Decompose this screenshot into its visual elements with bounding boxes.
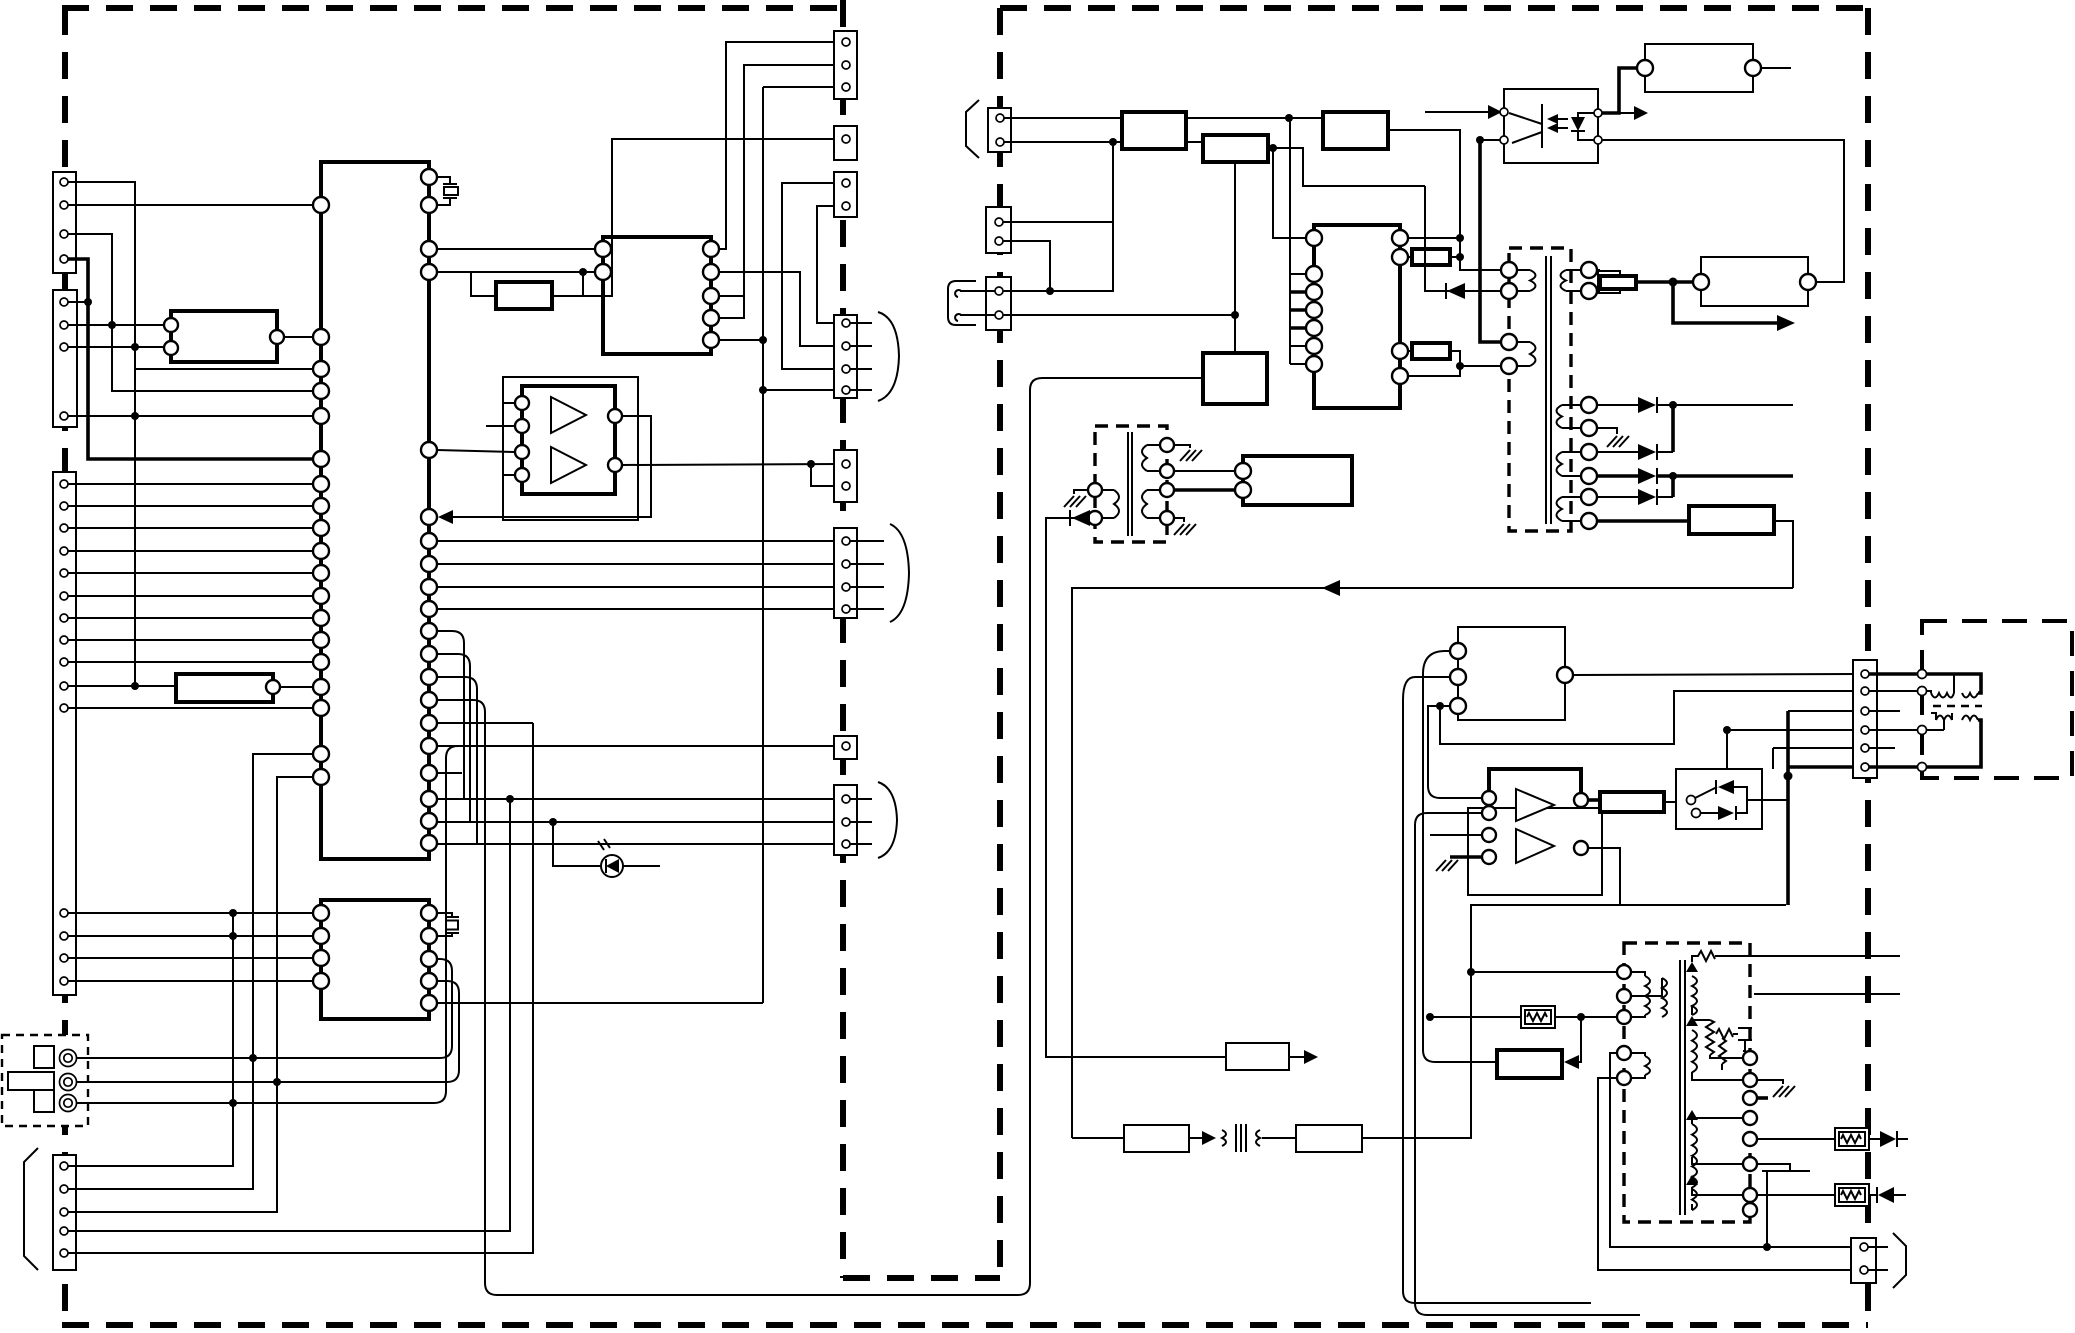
junction	[229, 909, 237, 917]
cable brace CN10	[890, 524, 909, 622]
wire R6 to FB line	[1774, 521, 1793, 588]
wire R1 to IC1	[280, 686, 313, 688]
U7 pins	[1637, 60, 1653, 76]
LED D1 symbol	[606, 859, 619, 873]
CN5 pins	[842, 38, 850, 46]
wire CN7-CN8 link2	[782, 183, 838, 369]
wire rail to CN5.3	[763, 86, 838, 88]
wire U4.5 rail	[719, 339, 763, 341]
junction	[131, 412, 139, 420]
rectifier join 1	[1671, 405, 1675, 452]
CN12 pins	[842, 795, 850, 803]
buffer shield box	[503, 377, 638, 520]
wire IC1 to CN12	[437, 798, 838, 800]
crystal X1 leads	[437, 177, 450, 205]
resistor R12 leads	[1408, 351, 1501, 366]
stub IC1 pin	[437, 772, 462, 774]
crystal X1	[443, 184, 457, 198]
wire CN3.12 to IC3	[68, 912, 313, 914]
IC2 pin	[164, 318, 178, 332]
CN2 pin 1	[60, 298, 68, 306]
wire to CN30 p3	[1788, 710, 1857, 712]
arrowhead FB	[1322, 580, 1340, 596]
braid wire 4 long return	[437, 378, 1203, 1295]
T4 primary winding 1	[1631, 972, 1650, 1017]
CN1 pin 1	[60, 178, 68, 186]
buffer amp A	[551, 397, 586, 433]
T4 pin1017 feed	[1430, 1016, 1617, 1018]
braid wire 1	[437, 631, 464, 799]
U5 input pins	[515, 396, 529, 482]
optocoupler U6	[1504, 89, 1598, 163]
arrow stub B+	[1673, 282, 1778, 323]
rectifier wire 1	[1597, 404, 1793, 406]
PWM controller U8	[1458, 627, 1565, 720]
resistor R7	[1600, 792, 1664, 812]
relay block RY1	[1203, 353, 1267, 404]
CN1 pin 3	[60, 230, 68, 238]
buffer amp B	[551, 447, 586, 483]
junction	[249, 1054, 257, 1062]
resistor R11	[1412, 249, 1450, 265]
wire R10 to B+	[1388, 130, 1501, 270]
stub pin 1098	[1757, 1096, 1768, 1100]
junction	[1456, 234, 1464, 242]
CN8 stubs	[850, 323, 872, 390]
rect block R10	[1323, 112, 1388, 149]
power board dashed border right	[1865, 8, 1871, 1325]
T2 core	[1128, 432, 1132, 536]
ground	[1180, 450, 1202, 461]
wire U4.2 to CN8	[719, 272, 838, 346]
H3 pins	[1693, 274, 1709, 290]
junction	[1723, 726, 1731, 734]
junction	[759, 336, 767, 344]
U10 input wire pin3	[1430, 834, 1482, 836]
feedback wire	[451, 416, 651, 517]
ground	[1064, 496, 1086, 507]
T4 primary winding 2	[1631, 978, 1667, 1017]
CN21 pins	[995, 218, 1003, 226]
T2 gnd right bottom	[1174, 518, 1184, 522]
wire IC1 to CN11	[437, 745, 838, 747]
CN7 pins	[842, 179, 850, 187]
fusible resistor FR3	[1521, 1006, 1555, 1028]
T1 core	[1546, 256, 1551, 524]
IC4 switching regulator	[1314, 225, 1400, 408]
AV square pad 1	[34, 1046, 54, 1068]
wire L1 out	[1268, 148, 1425, 186]
CN30 pins	[1861, 670, 1869, 771]
CN22 pins	[995, 287, 1003, 295]
fuse block F1	[1122, 112, 1186, 149]
AV jack panel dashed box	[2, 1035, 88, 1126]
R5 leads	[1597, 270, 1600, 291]
RCA jack 2	[60, 1074, 77, 1091]
junction	[1669, 401, 1677, 409]
wire IC1 to U4	[437, 248, 595, 250]
wire CN22.2	[1003, 314, 1235, 316]
power board dashed border top	[1000, 5, 1868, 11]
rail vertical net	[762, 87, 764, 1003]
junction	[1467, 968, 1475, 976]
ground	[1436, 860, 1458, 871]
wire rail to CN8.4	[763, 389, 838, 391]
output wire 994	[1754, 993, 1900, 995]
wire to T4 primary	[1471, 971, 1617, 973]
U6 LED	[1571, 117, 1585, 131]
resistor R11 leads	[1408, 256, 1460, 258]
diode D3	[1638, 397, 1656, 413]
wire CN1.4 5V rail	[68, 259, 313, 459]
U6 pins	[1500, 108, 1508, 116]
speaker terminals	[1918, 670, 1927, 679]
wire CN1.1 to IC1	[68, 182, 135, 687]
wire CN2.1	[68, 301, 88, 303]
U8 right pin	[1557, 667, 1573, 683]
junction	[579, 268, 587, 276]
diode D9	[1869, 1194, 1878, 1196]
junction	[131, 343, 139, 351]
AV square pad 2	[34, 1090, 54, 1112]
IC4 vcc stub	[1408, 237, 1460, 239]
U4 left pins	[595, 241, 611, 257]
wire term730	[1927, 729, 1944, 731]
digital board dashed border left	[62, 8, 68, 1325]
junction	[1426, 1013, 1434, 1021]
wire to IC4 vcc pin	[1273, 148, 1306, 238]
T1 primary winding B	[1517, 342, 1536, 366]
junction	[1784, 772, 1793, 781]
wire U6 collector up	[1602, 68, 1637, 113]
regulator block U9	[1243, 456, 1352, 505]
wire IC1 to CN12	[437, 843, 838, 845]
IC4 bus stubs thick	[1290, 292, 1306, 328]
wire IC1 pin	[135, 368, 313, 370]
junction	[1046, 287, 1054, 295]
wire CN2.3	[68, 346, 171, 348]
jumper CN9	[811, 464, 838, 486]
voice coil 1	[1927, 675, 1978, 698]
wire RCA1	[77, 959, 452, 1058]
standby block H4	[1226, 1043, 1289, 1070]
connector CN22	[986, 277, 1011, 330]
inter-board dashed line left	[840, 0, 846, 1278]
transformer T4 dashed box	[1624, 943, 1750, 1222]
rectifier wire 3 thick	[1597, 474, 1793, 478]
arrow stub	[1634, 106, 1648, 120]
junction	[1763, 1243, 1771, 1251]
wire CN2.4	[68, 415, 313, 417]
cable brace AC	[966, 100, 979, 158]
wire CN3 to filter R	[68, 685, 176, 687]
junction	[131, 682, 139, 690]
connector CN3	[53, 472, 76, 995]
junction	[1231, 311, 1239, 319]
wire CN6 to R2 node	[583, 139, 838, 296]
fusible resistor FR1	[1835, 1128, 1869, 1150]
CN30 to speaker wires	[1869, 674, 1917, 767]
junction	[1285, 114, 1293, 122]
junction	[1269, 144, 1277, 152]
connector CN30	[1853, 660, 1877, 778]
cable brace CN4	[24, 1148, 38, 1270]
connector CN4	[53, 1155, 76, 1270]
IC4 left pins	[1306, 230, 1322, 372]
junction	[1436, 702, 1444, 710]
wire IC1 to U5	[437, 450, 515, 452]
U10 amp B	[1516, 829, 1554, 863]
wire CN3.14 to IC3	[68, 957, 313, 959]
CN10 stubs	[850, 541, 884, 609]
trigger block H6	[1124, 1125, 1189, 1152]
R5 snubber	[1598, 271, 1620, 293]
bundle into H5	[1423, 651, 1497, 1062]
wire T2 to U9 thick	[1174, 488, 1243, 492]
wire RCA3	[77, 746, 458, 1103]
T2 gnd top-left	[1074, 490, 1088, 494]
voice coil drive wire	[1927, 674, 1981, 693]
connector CN12	[834, 785, 857, 855]
H4 out arrow	[1289, 1056, 1307, 1058]
CN2 pin 3	[60, 343, 68, 351]
junction	[1577, 1013, 1585, 1021]
resistor R2	[496, 282, 552, 309]
CN4 pin 5	[60, 1249, 68, 1257]
CN4 pin 3	[60, 1208, 68, 1216]
wire pin1053	[1610, 1053, 1857, 1247]
IC4 right pins	[1392, 230, 1408, 384]
T1 primary pins	[1501, 262, 1517, 278]
wire U4.1 to CN5	[719, 42, 838, 249]
IC4 ground bus	[1289, 118, 1291, 364]
CN6 pin	[842, 135, 850, 143]
junction	[1476, 136, 1484, 144]
T4 left pins	[1617, 965, 1631, 979]
T4 secondary windings	[1692, 976, 1697, 1015]
wire CN4.3	[68, 777, 313, 1212]
IC4 bus stubs	[1290, 274, 1306, 364]
amp block U10	[1489, 769, 1581, 887]
wire IC1 data to CN10	[437, 586, 838, 588]
cable brace CN31	[1893, 1233, 1906, 1288]
IC1 right pins	[421, 169, 437, 851]
wire to CN30 p2	[1440, 691, 1857, 744]
junction	[1456, 362, 1464, 370]
wire FB to H6	[1072, 1137, 1124, 1139]
LED D1	[601, 855, 623, 877]
wire IC2 out	[284, 336, 313, 338]
wire CN4.2	[68, 754, 313, 1189]
transformer T1 dashed box	[1509, 248, 1571, 531]
snubber resistor zigzag top	[1692, 951, 1717, 962]
diode D2	[1447, 283, 1465, 299]
arrowhead	[1488, 105, 1502, 119]
wire R7 to SW	[1664, 801, 1676, 803]
wire CN3.15 to IC3	[68, 980, 313, 982]
clamp diode D2 wire	[1425, 186, 1501, 291]
filter block L1	[1203, 135, 1268, 162]
switch box SW1	[1676, 769, 1762, 829]
feedback resistor R6 feed	[1597, 519, 1689, 523]
RCA jack 1	[60, 1050, 77, 1067]
bottom dashed border	[62, 1322, 1868, 1328]
LED rays	[598, 839, 610, 850]
wire U8 out to CN30	[1573, 674, 1857, 675]
CN31 stubs	[1868, 1247, 1888, 1270]
CN4 pin 4	[60, 1227, 68, 1235]
U5 output pins	[608, 409, 622, 423]
U5 input stubs	[486, 403, 515, 475]
CN2 pin 4	[60, 412, 68, 420]
wire IC3.5 net	[437, 1002, 763, 1004]
speaker dashed box	[1922, 621, 2072, 778]
junction	[273, 1078, 281, 1086]
wire U5 outB to CN9	[622, 464, 838, 465]
buffer U5	[522, 386, 615, 494]
relay rail vertical	[1786, 711, 1790, 905]
opto feed arrow wire	[1425, 111, 1490, 113]
T2 left pins	[1088, 483, 1102, 497]
wire CN4.1	[68, 1103, 233, 1166]
wire RCA2	[77, 981, 459, 1082]
inter-board dashed line right	[997, 8, 1003, 1278]
T4 core	[1680, 960, 1685, 1215]
resistor R12	[1412, 343, 1450, 359]
braid wire 2	[437, 654, 470, 822]
IC3 right pins	[421, 905, 437, 1011]
connector CN6	[834, 126, 857, 160]
CN11 pin	[842, 742, 850, 750]
wire CN21.1	[1003, 142, 1113, 222]
wire AC line 1	[1004, 117, 1323, 119]
U6 light arrows	[1552, 119, 1568, 128]
wire to CN30 p6 thick	[1788, 765, 1857, 769]
junction	[229, 932, 237, 940]
T4 pin stubs	[1692, 1005, 1743, 1210]
SW1 wiring	[1701, 787, 1788, 813]
wire CN7-CN8 link	[817, 206, 838, 323]
T2 gnd right top	[1174, 445, 1190, 448]
CN3 bus wires to IC1	[68, 484, 313, 708]
primary return thick	[1480, 140, 1501, 342]
coil core dashes	[1933, 705, 1982, 707]
CN20 pins	[996, 114, 1004, 122]
T1 primary winding A	[1517, 270, 1536, 291]
T1 secondary windings	[1557, 405, 1582, 428]
H6 out arrow	[1189, 1137, 1205, 1139]
junction	[549, 818, 557, 826]
wire to CN30 p5	[1773, 748, 1857, 769]
IC2 reset supervisor	[171, 311, 277, 362]
connector CN2	[53, 290, 77, 427]
U10 amp A	[1516, 789, 1554, 821]
T2 left winding	[1102, 490, 1119, 518]
diode D5	[1638, 468, 1656, 484]
CN10 pins	[842, 537, 850, 613]
U6 phototransistor	[1509, 104, 1542, 148]
T1 secondary pins	[1581, 262, 1597, 529]
wire L1 bottom to relay	[1234, 162, 1236, 353]
IC1 main microcontroller	[321, 162, 429, 859]
ground	[1174, 524, 1196, 535]
T4 right pins	[1743, 1051, 1757, 1217]
voice coil 2	[1931, 713, 1978, 730]
junction	[506, 795, 514, 803]
U10 left pins	[1482, 791, 1496, 805]
T2 right winding top	[1142, 445, 1160, 471]
crystal X2 leads	[437, 913, 452, 936]
voice coil 2 return thick	[1927, 720, 1981, 767]
junction	[759, 386, 767, 394]
wire CN21.2	[1003, 241, 1050, 291]
chassis gnd bar	[1762, 1170, 1810, 1172]
IC2 pin	[164, 341, 178, 355]
driver block H5	[1497, 1050, 1562, 1078]
output wire 956	[1717, 955, 1900, 957]
rectifier wire 2	[1597, 451, 1673, 453]
wire to FR1	[1757, 1138, 1835, 1140]
wire U7 out	[1761, 67, 1791, 69]
U6 LED leads	[1578, 113, 1594, 140]
connector CN31	[1851, 1238, 1876, 1283]
IC3 left pins	[313, 905, 329, 989]
connector CN5	[834, 31, 857, 99]
filter block R1	[176, 674, 273, 702]
SW1 contact	[1687, 796, 1696, 805]
wire IC1 data to CN10	[437, 540, 838, 542]
CN3 pins	[60, 480, 68, 985]
junction	[84, 298, 92, 306]
CN2 pin 2	[60, 321, 68, 329]
gnd T4	[1757, 1080, 1783, 1084]
RCA jack 3	[60, 1095, 77, 1112]
junction	[807, 460, 815, 468]
U10 right pins	[1574, 793, 1588, 807]
digital board dashed border top	[62, 5, 843, 11]
SW1 diode up	[1718, 780, 1734, 794]
CN4 pin 1	[60, 1162, 68, 1170]
CN31 pins	[1860, 1243, 1868, 1251]
AV wide pad	[8, 1072, 54, 1090]
arrow into H5	[1578, 1017, 1581, 1062]
diode D7	[1072, 510, 1090, 526]
wire IC1 to CN12	[437, 821, 838, 823]
wire H7 to T4	[1362, 905, 1786, 1138]
wire CN22.1	[1003, 222, 1113, 291]
diode D7 wire	[1046, 518, 1226, 1057]
U10 input wire pin2	[1415, 813, 1640, 1315]
wire CN22 to plug	[960, 291, 995, 315]
T1 aux winding	[1561, 270, 1582, 291]
junction	[1456, 253, 1464, 261]
CN9 pins	[842, 460, 850, 468]
U4 driver block	[603, 237, 711, 354]
T4 aux winding	[1631, 1053, 1650, 1078]
CN8 pins	[842, 319, 850, 394]
wire T3 to H7	[1262, 1137, 1296, 1139]
junction	[1669, 278, 1678, 287]
CN1 pin 2	[60, 201, 68, 209]
cable brace CN12	[878, 782, 897, 858]
U10 shield	[1468, 808, 1602, 895]
U8 left pins	[1450, 643, 1466, 659]
wire CN4.4	[68, 798, 510, 1231]
LED feed wire	[553, 822, 660, 866]
U10 gnd	[1450, 855, 1482, 859]
tap to CN31	[1766, 1171, 1768, 1247]
snubber network	[1692, 1020, 1743, 1058]
